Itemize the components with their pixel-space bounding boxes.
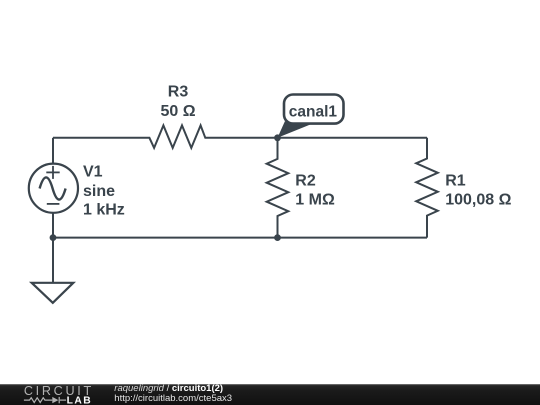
svg-text:canal1: canal1 [289,103,338,120]
svg-text:sine: sine [83,183,115,200]
svg-text:100,08 Ω: 100,08 Ω [445,191,511,208]
svg-text:LAB: LAB [67,396,93,405]
svg-text:1 MΩ: 1 MΩ [295,191,335,208]
svg-text:1 kHz: 1 kHz [83,201,125,218]
svg-text:http://circuitlab.com/cte5ax3: http://circuitlab.com/cte5ax3 [114,393,232,404]
svg-text:R2: R2 [295,172,316,189]
svg-text:V1: V1 [83,163,103,180]
svg-text:R3: R3 [168,84,189,101]
svg-text:R1: R1 [445,172,466,189]
svg-text:50 Ω: 50 Ω [160,103,195,120]
